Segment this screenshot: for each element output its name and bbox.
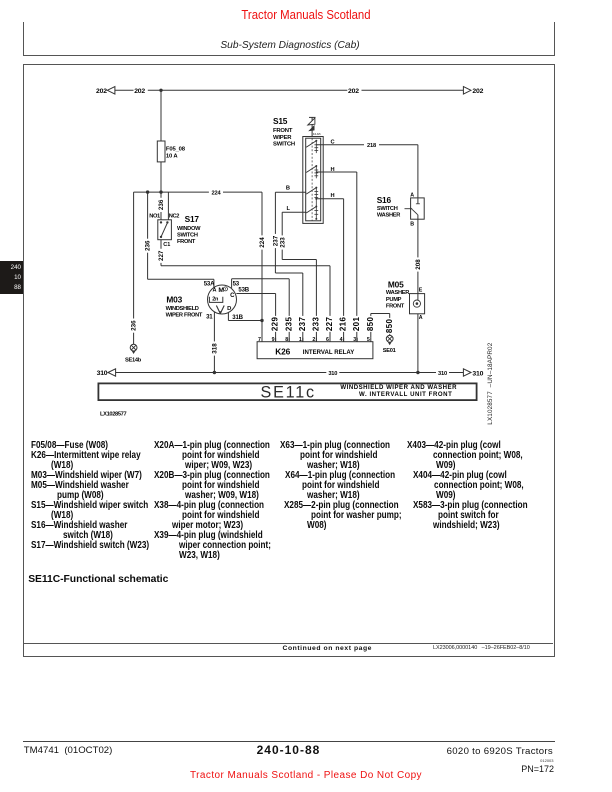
svg-text:8: 8 <box>285 337 288 343</box>
svg-text:310: 310 <box>438 371 447 377</box>
svg-text:C1: C1 <box>163 242 170 248</box>
svg-text:NO1: NO1 <box>149 214 160 220</box>
svg-text:227: 227 <box>325 316 334 331</box>
svg-text:233: 233 <box>279 237 286 248</box>
svg-text:31: 31 <box>206 314 213 321</box>
svg-text:31B: 31B <box>232 314 243 321</box>
svg-text:208: 208 <box>415 259 422 270</box>
svg-text:SE14b: SE14b <box>125 358 142 364</box>
svg-text:2: 2 <box>312 337 315 343</box>
svg-text:5: 5 <box>367 337 370 343</box>
svg-text:236: 236 <box>145 240 152 251</box>
svg-text:FRONT: FRONT <box>273 128 293 134</box>
svg-text:310: 310 <box>328 371 337 377</box>
svg-text:S17: S17 <box>185 214 200 224</box>
svg-text:4: 4 <box>340 337 343 343</box>
svg-text:1: 1 <box>299 337 302 343</box>
svg-text:A: A <box>419 315 423 321</box>
svg-text:FRONT: FRONT <box>177 239 196 245</box>
svg-text:53A: 53A <box>204 281 215 288</box>
svg-text:E: E <box>419 288 423 294</box>
svg-text:237: 237 <box>298 316 307 331</box>
svg-text:C: C <box>230 292 235 299</box>
svg-text:SE11c: SE11c <box>261 384 316 402</box>
svg-text:L: L <box>287 206 291 212</box>
svg-text:224: 224 <box>212 190 222 196</box>
svg-text:SE01: SE01 <box>383 348 396 354</box>
svg-text:H: H <box>331 193 335 199</box>
svg-text:INTERVAL RELAY: INTERVAL RELAY <box>303 349 354 356</box>
svg-text:LX1028577 –UN–18APR02: LX1028577 –UN–18APR02 <box>487 342 494 424</box>
svg-text:3: 3 <box>353 337 356 343</box>
svg-text:9: 9 <box>272 337 275 343</box>
svg-text:WINDSHIELD WIPER AND WASHER: WINDSHIELD WIPER AND WASHER <box>340 384 457 391</box>
svg-text:2n: 2n <box>212 297 219 303</box>
svg-text:M03: M03 <box>166 294 182 304</box>
svg-text:NC2: NC2 <box>169 214 179 220</box>
svg-text:201: 201 <box>352 316 361 331</box>
svg-text:10 A: 10 A <box>166 153 178 159</box>
svg-text:A: A <box>410 192 414 198</box>
svg-text:202: 202 <box>96 88 107 95</box>
svg-text:233: 233 <box>312 316 321 331</box>
svg-text:B: B <box>410 222 414 228</box>
svg-text:WINDOW: WINDOW <box>177 226 201 232</box>
svg-text:SWITCH: SWITCH <box>273 142 295 148</box>
svg-text:M05: M05 <box>388 280 404 290</box>
svg-text:C: C <box>331 139 335 145</box>
svg-text:WIPER FRONT: WIPER FRONT <box>166 313 203 319</box>
svg-text:B: B <box>286 186 290 192</box>
svg-text:D: D <box>227 306 231 312</box>
svg-text:0.1.8.5: 0.1.8.5 <box>313 133 321 136</box>
svg-text:PUMP: PUMP <box>386 297 402 303</box>
svg-text:7: 7 <box>258 337 261 343</box>
svg-text:WASHER: WASHER <box>386 290 409 296</box>
svg-text:310: 310 <box>472 370 483 377</box>
svg-text:S15: S15 <box>273 116 288 126</box>
svg-text:W. INTERVALL UNIT FRONT: W. INTERVALL UNIT FRONT <box>359 391 452 398</box>
svg-text:K26: K26 <box>275 346 290 356</box>
svg-text:216: 216 <box>339 316 348 331</box>
svg-text:202: 202 <box>348 88 359 95</box>
svg-text:WINDSHIELD: WINDSHIELD <box>166 306 199 312</box>
svg-text:310: 310 <box>97 370 108 377</box>
svg-text:F05_08: F05_08 <box>166 146 186 152</box>
svg-text:850: 850 <box>366 316 375 331</box>
svg-text:S16: S16 <box>377 195 392 205</box>
svg-text:318: 318 <box>212 343 219 354</box>
svg-text:A: A <box>213 288 217 294</box>
svg-text:227: 227 <box>158 250 165 261</box>
svg-text:WIPER: WIPER <box>273 135 292 141</box>
svg-text:202: 202 <box>134 88 145 95</box>
svg-text:235: 235 <box>284 316 293 331</box>
svg-text:FRONT: FRONT <box>386 303 405 309</box>
svg-text:224: 224 <box>259 237 266 248</box>
svg-text:SWITCH: SWITCH <box>377 206 398 212</box>
svg-text:236: 236 <box>131 320 138 331</box>
svg-text:SWITCH: SWITCH <box>177 232 198 238</box>
svg-text:229: 229 <box>271 316 280 331</box>
svg-text:H: H <box>331 167 335 173</box>
svg-text:6: 6 <box>326 337 329 343</box>
svg-text:202: 202 <box>472 88 483 95</box>
svg-text:218: 218 <box>367 143 376 149</box>
svg-text:LX1028577: LX1028577 <box>100 411 126 417</box>
svg-text:53B: 53B <box>238 287 249 294</box>
svg-text:WASHER: WASHER <box>377 213 400 219</box>
svg-text:850: 850 <box>385 318 394 333</box>
svg-text:236: 236 <box>158 199 165 210</box>
